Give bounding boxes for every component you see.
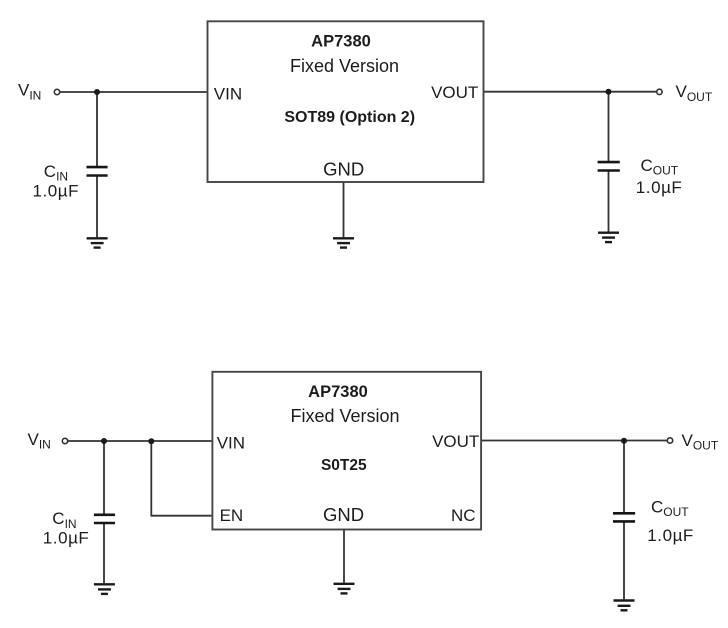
svg-text:SOT89 (Option 2): SOT89 (Option 2) [284,109,415,126]
svg-text:1.0µF: 1.0µF [43,529,90,548]
svg-text:1.0µF: 1.0µF [636,178,683,197]
svg-text:AP7380: AP7380 [308,383,368,401]
svg-text:VOUT: VOUT [432,432,479,451]
svg-text:VOUT: VOUT [431,83,478,102]
svg-text:Fixed Version: Fixed Version [290,56,399,76]
svg-text:EN: EN [220,506,244,525]
svg-text:1.0µF: 1.0µF [647,526,694,545]
svg-text:S0T25: S0T25 [321,457,367,474]
svg-text:GND: GND [323,504,364,525]
svg-text:VIN: VIN [217,434,245,453]
svg-text:NC: NC [451,506,476,525]
svg-text:AP7380: AP7380 [311,32,371,50]
svg-text:1.0µF: 1.0µF [33,181,80,200]
svg-text:GND: GND [323,158,364,179]
svg-text:VIN: VIN [214,85,242,104]
svg-text:Fixed Version: Fixed Version [290,406,399,426]
